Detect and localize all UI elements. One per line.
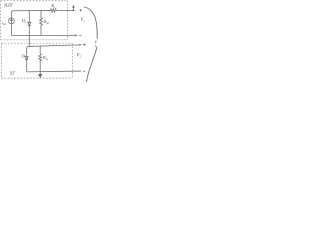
brace arc right <box>84 7 97 39</box>
svg-text:V1: V1 <box>80 18 85 23</box>
diode D_s <box>25 49 28 72</box>
label minus V2 <box>83 70 85 72</box>
wire bottom rail <box>11 34 75 36</box>
resistor R_sj <box>39 46 42 72</box>
dashed box NJT (top) <box>1 1 68 40</box>
resistor R_s <box>50 9 57 12</box>
dashed box SJ (bottom) <box>1 43 72 78</box>
node tick arrow up <box>73 6 75 11</box>
wire SJ bottom rail <box>27 70 80 73</box>
wire to SJ box <box>28 36 30 47</box>
svg-text:V2: V2 <box>77 53 82 58</box>
brace arc right lower <box>86 47 97 83</box>
label minus V1 <box>79 35 81 37</box>
label plus V1 <box>79 9 81 11</box>
wire rail to output <box>57 9 73 11</box>
arrowhead output bottom <box>75 34 78 36</box>
current source i_ph <box>10 13 12 36</box>
diode D_j <box>28 22 31 35</box>
label plus V2 <box>83 44 85 46</box>
svg-text:V: V <box>94 40 97 45</box>
ground arrow down <box>39 72 42 78</box>
node dot V2 bottom <box>80 70 81 71</box>
wire SJ top rail <box>27 45 80 49</box>
wire top rail <box>11 11 50 13</box>
label V_b tick <box>94 45 96 47</box>
svg-text:NJT: NJT <box>3 4 14 9</box>
svg-text:SJ: SJ <box>10 70 16 76</box>
resistor R_sh <box>40 11 43 36</box>
arrowhead output top <box>73 9 76 11</box>
wire diode branch top <box>28 11 30 23</box>
arrowhead V2 top <box>79 44 82 46</box>
